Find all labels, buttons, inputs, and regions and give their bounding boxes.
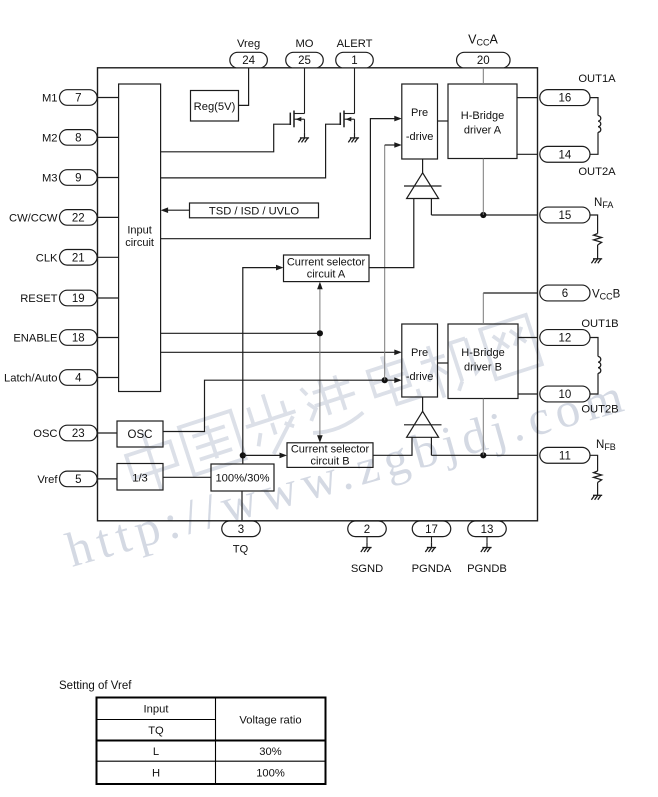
pin 15 (right) <box>540 207 590 223</box>
pin 23 OSC (left) <box>60 425 98 441</box>
wire Pre-drive B to comparator B apex <box>422 397 424 411</box>
pin 8 M2 (left) <box>60 130 98 146</box>
comparator U1 (current comp A) <box>407 173 439 199</box>
wire H-Bridge B to pin 10 <box>518 393 538 395</box>
svg-text:driver B: driver B <box>464 362 502 374</box>
wire resistor to ground B <box>597 483 599 491</box>
pin 10 (right) <box>540 386 590 402</box>
svg-text:30%: 30% <box>259 746 281 758</box>
svg-text:9: 9 <box>75 173 81 185</box>
pin 6 (right) <box>540 285 590 301</box>
svg-text:4: 4 <box>75 373 82 385</box>
svg-text:15: 15 <box>559 210 572 222</box>
wire H-Bridge A to pin 16 <box>517 97 538 99</box>
svg-text:Vreg: Vreg <box>237 38 260 50</box>
wire input to selector junction <box>161 332 320 334</box>
wire pin 9 to input circuit <box>98 177 119 179</box>
pin 11 (right) <box>540 447 590 463</box>
wire input to Pre-drive B upper input <box>161 351 395 353</box>
svg-text:OUT2B: OUT2B <box>581 404 618 416</box>
pin 14 (right) <box>540 146 590 162</box>
Current selector circuit B block <box>287 443 373 468</box>
wire H-Bridge A to pin 14 <box>517 153 538 155</box>
pin 22 CW/CCW (left) <box>60 210 98 226</box>
wire NFB pin 11 to resistor <box>590 455 598 471</box>
junction dot ratio line <box>240 452 246 458</box>
pin 20 VCCA (top) <box>457 52 511 68</box>
wire load coil to OUT2B <box>590 373 598 394</box>
svg-text:-drive: -drive <box>406 371 434 383</box>
H-Bridge driver B block <box>448 324 518 399</box>
svg-text:OSC: OSC <box>128 429 153 441</box>
svg-text:VCCA: VCCA <box>468 33 498 48</box>
ground NFB <box>597 490 599 495</box>
pin 7 M1 (left) <box>60 90 98 106</box>
wire OUT1A to load coil <box>590 98 598 116</box>
svg-text:17: 17 <box>425 524 438 536</box>
svg-text:RESET: RESET <box>20 293 57 305</box>
svg-text:2: 2 <box>364 524 370 536</box>
Current selector circuit A block <box>284 255 370 282</box>
svg-text:7: 7 <box>75 93 81 105</box>
svg-text:-drive: -drive <box>406 131 434 143</box>
wire selector B to comparator B <box>373 437 412 455</box>
svg-text:Setting of Vref: Setting of Vref <box>59 680 132 692</box>
wire resistor to ground A <box>597 245 599 254</box>
wire VCCB pin 6 to H-Bridge B <box>483 292 537 294</box>
junction dot selector line <box>317 330 323 336</box>
svg-text:8: 8 <box>75 133 81 145</box>
wire pin 24 Vreg to Reg(5V) <box>239 68 249 106</box>
svg-text:Vref: Vref <box>37 474 58 486</box>
wire Pre-drive A to H-Bridge A <box>438 120 449 122</box>
svg-text:M2: M2 <box>42 132 58 144</box>
wire input circuit to Q1 gate <box>161 124 291 152</box>
svg-text:circuit B: circuit B <box>310 456 349 468</box>
svg-text:ENABLE: ENABLE <box>13 333 57 345</box>
svg-text:Pre: Pre <box>411 347 428 359</box>
transistor Q2 (ALERT open-drain) with ground <box>354 68 356 114</box>
svg-text:Voltage ratio: Voltage ratio <box>239 714 301 726</box>
svg-text:L: L <box>153 746 159 758</box>
svg-text:23: 23 <box>72 428 85 440</box>
svg-text:Latch/Auto: Latch/Auto <box>4 373 58 385</box>
svg-text:1/3: 1/3 <box>132 472 148 484</box>
ground NFA <box>597 254 599 259</box>
svg-text:Reg(5V): Reg(5V) <box>194 101 236 113</box>
IC body outline <box>98 68 538 521</box>
svg-text:H-Bridge: H-Bridge <box>461 110 504 122</box>
wire pin 18 to input circuit <box>98 337 119 339</box>
svg-text:5: 5 <box>75 474 81 486</box>
wire H-Bridge A bottom to NFA line <box>482 159 484 216</box>
pin 12 (right) <box>540 330 590 346</box>
wire H-Bridge B to pin 12 <box>518 337 538 339</box>
comparator U2 (current comp B) <box>407 411 439 437</box>
wire pin 5 to 1/3 <box>98 478 118 480</box>
TSD/ISD/UVLO block <box>190 203 319 218</box>
pin 3 TQ (bottom) <box>222 521 261 537</box>
svg-text:3: 3 <box>238 524 244 536</box>
svg-text:Current selector: Current selector <box>287 256 366 268</box>
wire pin 21 to input circuit <box>98 256 119 258</box>
wire comparator A to NFA node <box>430 199 432 216</box>
wire pin 23 to OSC <box>98 432 118 434</box>
svg-text:11: 11 <box>559 450 571 462</box>
svg-text:18: 18 <box>72 333 85 345</box>
svg-text:21: 21 <box>72 252 85 264</box>
svg-text:Input: Input <box>144 704 170 716</box>
junction dot NFA <box>480 212 486 218</box>
svg-text:circuit A: circuit A <box>307 268 346 280</box>
svg-text:22: 22 <box>72 213 85 225</box>
wire selector A-B vertical with arrows <box>319 286 321 438</box>
wire NFB line to pin 11 <box>431 454 537 456</box>
wire input to Pre-drive A upper input <box>161 119 395 239</box>
svg-text:OUT1B: OUT1B <box>581 318 618 330</box>
svg-text:12: 12 <box>559 333 572 345</box>
watermark <box>121 425 183 496</box>
resistor RNFB <box>594 471 602 483</box>
pin 24 Vreg (top) <box>230 52 268 68</box>
wire pin 8 to input circuit <box>98 136 119 138</box>
junction dot NFB <box>480 452 486 458</box>
svg-text:16: 16 <box>559 93 572 105</box>
svg-text:Input: Input <box>127 225 151 237</box>
svg-text:circuit: circuit <box>125 237 154 249</box>
svg-text:TQ: TQ <box>148 725 164 737</box>
wire OSC branch to Pre-drive A lower input <box>384 145 386 380</box>
wire ratio branch to selector B with arrow <box>243 454 280 456</box>
wire 1/3 to 100%/30% <box>163 476 211 478</box>
wire pin 19 to input circuit <box>98 297 119 299</box>
pin 19 RESET (left) <box>60 290 98 306</box>
svg-text:OSC: OSC <box>33 428 57 440</box>
wire H-Bridge B bottom to NFB line <box>482 399 484 456</box>
svg-text:24: 24 <box>242 55 255 67</box>
pin 9 M3 (left) <box>60 170 98 186</box>
100%/30% block <box>211 464 274 491</box>
svg-text:M3: M3 <box>42 173 58 185</box>
svg-text:VCCB: VCCB <box>592 289 621 302</box>
H-Bridge driver A block <box>448 84 517 159</box>
wire input circuit to Q2 gate <box>161 124 341 178</box>
svg-text:H: H <box>152 767 160 779</box>
svg-text:H-Bridge: H-Bridge <box>461 347 504 359</box>
svg-text:CLK: CLK <box>36 252 58 264</box>
pin 16 (right) <box>540 90 590 106</box>
pin 2 SGND (bottom) with ground <box>348 521 387 537</box>
svg-text:TQ: TQ <box>233 544 249 556</box>
svg-text:SGND: SGND <box>351 563 383 575</box>
transistor Q1 (MO open-drain) with ground <box>304 68 306 114</box>
svg-text:NFA: NFA <box>594 197 613 210</box>
svg-text:MO: MO <box>295 38 313 50</box>
Pre-drive B block <box>402 324 438 397</box>
inductor load B <box>598 357 601 374</box>
svg-text:10: 10 <box>559 389 572 401</box>
wire NFA line to pin 15 <box>431 214 537 216</box>
wire OSC to Pre-drive B lower input <box>163 380 395 431</box>
pin 18 ENABLE (left) <box>60 330 98 346</box>
wire load coil to OUT2A <box>590 132 598 154</box>
svg-text:100%: 100% <box>256 767 285 779</box>
svg-text:Current selector: Current selector <box>291 444 370 456</box>
wire NFA pin 15 to resistor <box>590 215 598 234</box>
pin 5 Vref (left) <box>60 471 98 487</box>
svg-text:driver A: driver A <box>464 125 502 137</box>
junction dot OSC branch <box>382 377 388 383</box>
svg-text:OUT1A: OUT1A <box>578 73 616 85</box>
svg-text:PGNDB: PGNDB <box>467 563 507 575</box>
pin 13 PGNDB (bottom) with ground <box>468 521 507 537</box>
wire pin 22 to input circuit <box>98 216 119 218</box>
Pre-drive A block <box>402 84 438 159</box>
svg-text:M1: M1 <box>42 93 58 105</box>
svg-text:20: 20 <box>477 55 490 67</box>
resistor RNFA <box>594 234 602 246</box>
Input circuit block <box>119 84 161 392</box>
OSC block <box>117 421 163 447</box>
inductor load A <box>598 116 601 133</box>
pin 17 PGNDA (bottom) with ground <box>412 521 451 537</box>
svg-text:ALERT: ALERT <box>337 38 373 50</box>
wire pin 7 to input circuit <box>98 97 119 99</box>
pin 25 MO (top) <box>286 52 324 68</box>
wire 100%/30% to pin 3 TQ <box>241 491 243 521</box>
pin 21 CLK (left) <box>60 250 98 266</box>
pin 4 Latch/Auto (left) <box>60 370 98 386</box>
svg-text:Pre: Pre <box>411 107 428 119</box>
wire pin 4 to input circuit <box>98 377 119 379</box>
wire comparator B to NFB node <box>430 437 432 455</box>
svg-text:1: 1 <box>351 55 357 67</box>
svg-text:PGNDA: PGNDA <box>412 563 452 575</box>
svg-text:CW/CCW: CW/CCW <box>9 212 58 224</box>
1/3 block <box>117 464 163 491</box>
svg-text:6: 6 <box>562 288 568 300</box>
svg-text:NFB: NFB <box>596 439 616 452</box>
wire 100%/30% up to selector A with arrow <box>243 268 276 464</box>
Reg(5V) block <box>191 91 239 122</box>
wire TSD to input circuit with arrow <box>167 209 190 211</box>
svg-text:14: 14 <box>559 149 572 161</box>
wire Pre-drive B to H-Bridge B <box>438 362 449 364</box>
svg-text:100%/30%: 100%/30% <box>215 473 269 485</box>
svg-text:13: 13 <box>481 524 494 536</box>
wire Pre-drive A to comparator A apex <box>422 159 424 173</box>
wire selector A to comparator A <box>369 199 414 268</box>
svg-text:TSD / ISD / UVLO: TSD / ISD / UVLO <box>209 205 299 217</box>
wire OUT1B to load coil <box>590 338 598 357</box>
wire pin 20 VCCA to H-Bridge A <box>482 68 484 84</box>
svg-text:OUT2A: OUT2A <box>578 166 616 178</box>
pin 1 ALERT (top) <box>336 52 374 68</box>
svg-text:25: 25 <box>298 55 311 67</box>
svg-text:19: 19 <box>72 293 85 305</box>
